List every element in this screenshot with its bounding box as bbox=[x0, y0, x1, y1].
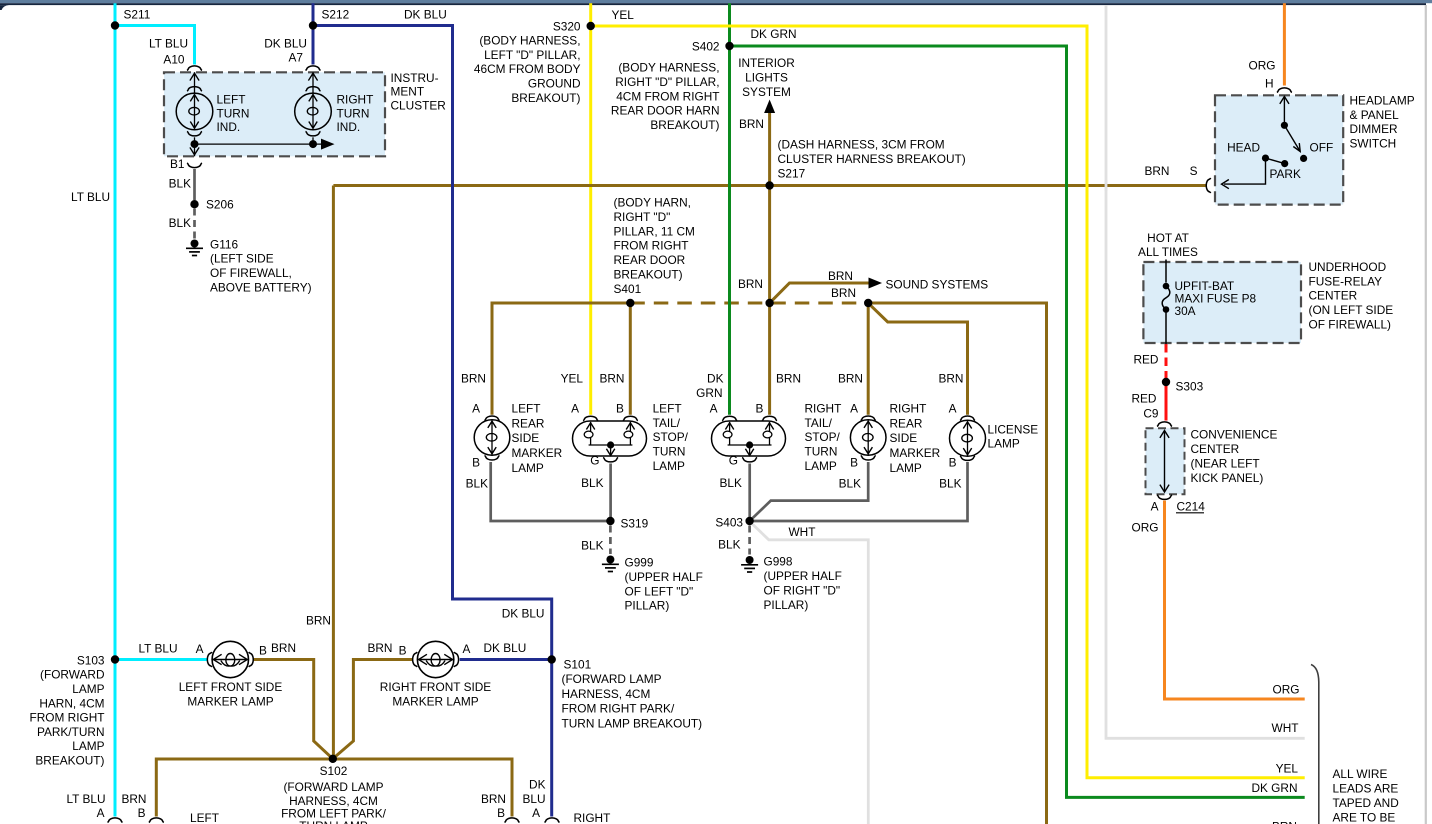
svg-text:4CM FROM RIGHT: 4CM FROM RIGHT bbox=[616, 89, 719, 103]
svg-text:SIDE: SIDE bbox=[512, 431, 540, 445]
svg-text:BRN: BRN bbox=[367, 641, 392, 655]
wire BLK right tail G to S403 bbox=[748, 464, 751, 522]
svg-text:IND.: IND. bbox=[217, 120, 241, 134]
connector C214 bbox=[1157, 495, 1172, 499]
wire BRN main vertical to S102 bbox=[332, 186, 335, 759]
svg-text:OF RIGHT "D": OF RIGHT "D" bbox=[764, 584, 841, 598]
svg-text:BRN: BRN bbox=[739, 117, 764, 131]
svg-text:BLK: BLK bbox=[720, 476, 742, 490]
svg-text:BRN: BRN bbox=[828, 269, 853, 283]
wire BRN splice drop to right tail B bbox=[768, 303, 771, 415]
svg-text:BLU: BLU bbox=[522, 792, 545, 806]
svg-text:LEFT "D" PILLAR,: LEFT "D" PILLAR, bbox=[484, 48, 580, 62]
wire LT BLU S103 to lamp bbox=[115, 658, 207, 661]
svg-text:INTERIOR: INTERIOR bbox=[738, 56, 795, 70]
svg-text:ORG: ORG bbox=[1273, 682, 1300, 696]
svg-text:BREAKOUT): BREAKOUT) bbox=[650, 118, 719, 132]
svg-text:LAMP: LAMP bbox=[653, 459, 685, 473]
instrument cluster box bbox=[164, 72, 385, 156]
svg-text:A: A bbox=[472, 401, 480, 415]
svg-text:ORG: ORG bbox=[1132, 520, 1159, 534]
svg-text:(BODY HARNESS,: (BODY HARNESS, bbox=[479, 33, 580, 47]
wire BRN splice right and down page bbox=[868, 303, 1046, 824]
wire BRN S217 down to splice bbox=[768, 186, 771, 304]
turn indicator lamp at x=313 bbox=[312, 72, 314, 93]
svg-text:BRN: BRN bbox=[938, 372, 963, 386]
arrow to interior lights system bbox=[764, 100, 775, 114]
svg-text:FROM RIGHT PARK/: FROM RIGHT PARK/ bbox=[562, 702, 675, 716]
svg-text:(NEAR LEFT: (NEAR LEFT bbox=[1191, 457, 1260, 471]
svg-text:RIGHT: RIGHT bbox=[805, 401, 842, 415]
svg-text:INSTRU-: INSTRU- bbox=[391, 71, 439, 85]
svg-text:(FORWARD LAMP: (FORWARD LAMP bbox=[562, 672, 662, 686]
crossing overlays (wires passing over BRN main) bbox=[451, 180, 454, 191]
wire DK GRN S402 branch right and down bbox=[730, 46, 1305, 797]
svg-text:RIGHT: RIGHT bbox=[337, 93, 374, 107]
svg-text:YEL: YEL bbox=[561, 372, 584, 386]
svg-text:MENT: MENT bbox=[391, 85, 425, 99]
svg-text:BRN: BRN bbox=[461, 372, 486, 386]
wire BLK dashed S403 to G998 bbox=[748, 526, 751, 555]
svg-text:BRN: BRN bbox=[121, 792, 146, 806]
wire BRN splice drop to right marker A bbox=[867, 303, 870, 415]
svg-text:YEL: YEL bbox=[1276, 761, 1299, 775]
svg-text:B: B bbox=[138, 806, 146, 820]
svg-text:TAIL/: TAIL/ bbox=[653, 416, 681, 430]
svg-text:46CM FROM BODY: 46CM FROM BODY bbox=[474, 62, 581, 76]
svg-text:PILLAR, 11 CM: PILLAR, 11 CM bbox=[614, 224, 695, 238]
svg-text:BLK: BLK bbox=[839, 476, 861, 490]
wire LT BLU vertical S211->S103->bottom bbox=[114, 3, 117, 816]
svg-text:BRN: BRN bbox=[1144, 164, 1169, 178]
svg-text:RIGHT FRONT SIDE: RIGHT FRONT SIDE bbox=[380, 680, 492, 694]
wire BRN S217 up to interior lights bbox=[768, 113, 771, 186]
svg-text:(ON LEFT SIDE: (ON LEFT SIDE bbox=[1309, 303, 1394, 317]
cluster exit to B1 bbox=[194, 144, 196, 156]
wire BRN sound systems branch bbox=[772, 283, 869, 300]
svg-text:B: B bbox=[949, 455, 957, 469]
svg-text:DK GRN: DK GRN bbox=[751, 27, 797, 41]
svg-text:ALL WIRE: ALL WIRE bbox=[1333, 767, 1388, 781]
fuse UPFIT-BAT MAXI FUSE P8 30A bbox=[1165, 260, 1167, 283]
svg-text:A7: A7 bbox=[289, 51, 304, 65]
svg-text:(FORWARD: (FORWARD bbox=[40, 668, 104, 682]
connector B1 bbox=[187, 163, 202, 167]
svg-text:LEFT: LEFT bbox=[653, 401, 682, 415]
svg-text:RED: RED bbox=[1133, 352, 1158, 366]
splice S320 bbox=[587, 22, 595, 30]
splice S101 bbox=[548, 655, 556, 663]
svg-text:OF FIREWALL,: OF FIREWALL, bbox=[210, 266, 292, 280]
svg-text:LIGHTS: LIGHTS bbox=[745, 71, 788, 85]
svg-text:BRN: BRN bbox=[738, 277, 763, 291]
svg-text:S303: S303 bbox=[1176, 379, 1204, 393]
svg-text:DK GRN: DK GRN bbox=[1251, 781, 1297, 795]
svg-text:BLK: BLK bbox=[169, 216, 191, 230]
svg-text:BRN: BRN bbox=[271, 641, 296, 655]
svg-text:TURN LAMP: TURN LAMP bbox=[299, 819, 368, 824]
svg-text:MARKER: MARKER bbox=[512, 446, 563, 460]
svg-text:CENTER: CENTER bbox=[1191, 442, 1240, 456]
svg-text:B: B bbox=[497, 806, 505, 820]
turn indicator lamp at x=194.5 bbox=[194, 72, 196, 93]
svg-text:TURN: TURN bbox=[217, 106, 250, 120]
splice S103 bbox=[111, 655, 119, 663]
svg-text:S403: S403 bbox=[715, 516, 743, 530]
svg-text:ARE TO BE: ARE TO BE bbox=[1333, 810, 1396, 824]
svg-text:S319: S319 bbox=[621, 517, 649, 531]
svg-text:STOP/: STOP/ bbox=[805, 430, 841, 444]
svg-text:LT BLU: LT BLU bbox=[66, 792, 105, 806]
svg-text:SIDE: SIDE bbox=[890, 431, 918, 445]
svg-text:BLK: BLK bbox=[718, 538, 740, 552]
grouping bracket bbox=[1311, 665, 1319, 824]
splice S401 bbox=[626, 299, 634, 307]
splice on dashed line (right) bbox=[864, 299, 872, 307]
svg-text:LT BLU: LT BLU bbox=[138, 641, 177, 655]
svg-text:A: A bbox=[463, 642, 471, 656]
wire RED S303 to C9 bbox=[1165, 378, 1168, 421]
wire DK BLU lamp to S101 bbox=[460, 658, 552, 661]
svg-text:TAPED AND: TAPED AND bbox=[1333, 796, 1399, 810]
wire WHT right-side vertical bbox=[1106, 5, 1305, 738]
wire RED fused dashed segment bbox=[1165, 344, 1168, 378]
svg-text:(BODY HARN,: (BODY HARN, bbox=[614, 196, 691, 210]
svg-text:A: A bbox=[196, 642, 204, 656]
wire WHT from S403 down right side of body bbox=[752, 524, 869, 824]
svg-text:A: A bbox=[850, 401, 858, 415]
svg-text:CONVENIENCE: CONVENIENCE bbox=[1191, 428, 1278, 442]
svg-text:DK BLU: DK BLU bbox=[484, 641, 527, 655]
splice on dashed line (center) bbox=[765, 299, 773, 307]
ground G999 bbox=[606, 556, 614, 564]
svg-text:BLK: BLK bbox=[581, 476, 603, 490]
ground G998 bbox=[746, 556, 754, 564]
svg-text:B: B bbox=[259, 644, 267, 658]
wire BRN left marker lamp B to S102 bbox=[253, 660, 333, 759]
svg-text:STOP/: STOP/ bbox=[653, 430, 689, 444]
svg-text:BREAKOUT): BREAKOUT) bbox=[511, 91, 580, 105]
svg-text:HARNESS, 4CM: HARNESS, 4CM bbox=[562, 687, 651, 701]
wire BLK right marker B to S403 bbox=[750, 462, 868, 521]
bottom connector LT BLU A bbox=[108, 818, 123, 822]
wire ORG top to headlamp switch H bbox=[1283, 3, 1286, 85]
svg-text:G: G bbox=[590, 453, 599, 467]
svg-text:G116: G116 bbox=[210, 237, 239, 251]
wire ORG from C214 down and right bbox=[1165, 501, 1305, 700]
svg-text:HOT AT: HOT AT bbox=[1147, 231, 1189, 245]
svg-text:G: G bbox=[729, 453, 738, 467]
svg-text:BRN: BRN bbox=[776, 372, 801, 386]
svg-text:LEADS ARE: LEADS ARE bbox=[1333, 781, 1399, 795]
svg-text:LEFT: LEFT bbox=[512, 402, 541, 416]
svg-text:OF FIREWALL): OF FIREWALL) bbox=[1309, 318, 1392, 332]
wire DK BLU vertical S212 to A7 bbox=[312, 3, 315, 64]
wire BRN S401 drop to left tail B bbox=[629, 303, 632, 415]
svg-text:HEADLAMP: HEADLAMP bbox=[1350, 93, 1415, 107]
svg-text:BREAKOUT): BREAKOUT) bbox=[35, 754, 104, 768]
svg-text:ABOVE BATTERY): ABOVE BATTERY) bbox=[210, 281, 312, 295]
svg-text:DK BLU: DK BLU bbox=[264, 36, 307, 50]
svg-text:BRN: BRN bbox=[481, 792, 506, 806]
svg-text:BRN: BRN bbox=[838, 372, 863, 386]
svg-text:FUSE-RELAY: FUSE-RELAY bbox=[1309, 274, 1383, 288]
svg-text:SWITCH: SWITCH bbox=[1350, 137, 1397, 151]
right front side marker lamp bbox=[417, 641, 453, 677]
svg-text:G998: G998 bbox=[764, 555, 793, 569]
svg-text:S212: S212 bbox=[322, 8, 350, 22]
svg-text:BRN: BRN bbox=[1272, 820, 1297, 824]
underhood fuse-relay center box bbox=[1143, 262, 1301, 343]
svg-text:WHT: WHT bbox=[789, 525, 816, 539]
svg-text:S211: S211 bbox=[124, 8, 151, 22]
svg-text:YEL: YEL bbox=[612, 8, 635, 22]
svg-text:(FORWARD LAMP: (FORWARD LAMP bbox=[283, 780, 383, 794]
svg-text:GROUND: GROUND bbox=[528, 77, 581, 91]
svg-text:S320: S320 bbox=[553, 20, 581, 34]
bottom connector DK BLU A bbox=[545, 818, 560, 822]
wire BRN branch to license lamp A bbox=[871, 306, 968, 415]
svg-text:A10: A10 bbox=[163, 53, 184, 67]
svg-text:LAMP: LAMP bbox=[512, 461, 544, 475]
svg-text:A: A bbox=[710, 401, 718, 415]
left rear side marker lamp bbox=[485, 416, 500, 420]
svg-text:G999: G999 bbox=[625, 556, 654, 570]
svg-text:GRN: GRN bbox=[696, 386, 722, 400]
svg-text:DIMMER: DIMMER bbox=[1350, 122, 1398, 136]
svg-text:(UPPER HALF: (UPPER HALF bbox=[764, 569, 842, 583]
svg-text:B: B bbox=[472, 455, 480, 469]
svg-text:TURN LAMP BREAKOUT): TURN LAMP BREAKOUT) bbox=[562, 716, 703, 730]
svg-text:S: S bbox=[1190, 164, 1198, 178]
svg-text:FROM RIGHT: FROM RIGHT bbox=[614, 239, 689, 253]
wire BLK license B to S403 bbox=[750, 462, 968, 521]
page right edge divider bbox=[1425, 5, 1427, 824]
connector C9 bbox=[1157, 422, 1172, 426]
svg-text:H: H bbox=[1265, 77, 1274, 91]
wire BRN main horizontal to headlamp switch bbox=[333, 184, 1205, 187]
svg-text:CLUSTER HARNESS BREAKOUT): CLUSTER HARNESS BREAKOUT) bbox=[778, 152, 966, 166]
svg-text:TAIL/: TAIL/ bbox=[805, 416, 833, 430]
wire BLK left tail G to S319 bbox=[609, 464, 612, 522]
svg-text:& PANEL: & PANEL bbox=[1350, 108, 1400, 122]
splice S319 bbox=[606, 517, 614, 525]
svg-text:(LEFT SIDE: (LEFT SIDE bbox=[210, 252, 274, 266]
splice S403 bbox=[745, 517, 753, 525]
svg-text:MARKER LAMP: MARKER LAMP bbox=[187, 694, 273, 708]
svg-text:C9: C9 bbox=[1143, 406, 1159, 420]
left tail/stop/turn lamp bbox=[583, 416, 598, 420]
svg-text:(BODY HARNESS,: (BODY HARNESS, bbox=[618, 61, 719, 75]
svg-text:BREAKOUT): BREAKOUT) bbox=[614, 268, 683, 282]
svg-text:REAR DOOR HARN: REAR DOOR HARN bbox=[611, 104, 720, 118]
connector A10 bbox=[187, 66, 202, 70]
svg-text:BLK: BLK bbox=[581, 539, 603, 553]
svg-text:RIGHT "D": RIGHT "D" bbox=[614, 210, 671, 224]
wire BRN solid segment to S401 + drop to left marker bbox=[492, 303, 630, 415]
wire BLK dashed S206 to G116 bbox=[193, 209, 196, 239]
svg-text:RIGHT "D" PILLAR,: RIGHT "D" PILLAR, bbox=[615, 75, 719, 89]
svg-text:C214: C214 bbox=[1177, 499, 1206, 513]
wire LT BLU branch S211 to A10 bbox=[115, 26, 195, 65]
svg-text:ALL TIMES: ALL TIMES bbox=[1138, 245, 1198, 259]
svg-text:HARN, 4CM: HARN, 4CM bbox=[39, 696, 104, 710]
svg-text:SYSTEM: SYSTEM bbox=[742, 85, 791, 99]
svg-text:SOUND SYSTEMS: SOUND SYSTEMS bbox=[886, 277, 989, 291]
cluster junction dots and arrow line bbox=[191, 140, 199, 148]
svg-text:A: A bbox=[949, 401, 957, 415]
wire BLK B1 to S206 bbox=[193, 169, 196, 200]
svg-text:PILLAR): PILLAR) bbox=[625, 599, 670, 613]
headlamp & panel dimmer switch box bbox=[1215, 95, 1343, 204]
svg-text:LEFT: LEFT bbox=[190, 811, 219, 824]
wire BLK left marker B to S319 bbox=[491, 462, 611, 521]
svg-text:(DASH HARNESS, 3CM FROM: (DASH HARNESS, 3CM FROM bbox=[778, 138, 945, 152]
svg-text:S101: S101 bbox=[564, 658, 592, 672]
svg-text:A: A bbox=[571, 401, 579, 415]
svg-text:BRN: BRN bbox=[306, 614, 331, 628]
svg-text:BLK: BLK bbox=[939, 476, 961, 490]
svg-text:B: B bbox=[616, 401, 624, 415]
svg-text:PARK: PARK bbox=[1270, 167, 1301, 181]
svg-text:LT BLU: LT BLU bbox=[71, 190, 110, 204]
license lamp bbox=[960, 416, 975, 420]
svg-text:(UPPER HALF: (UPPER HALF bbox=[625, 570, 703, 584]
svg-text:REAR: REAR bbox=[890, 416, 923, 430]
svg-text:ORG: ORG bbox=[1249, 59, 1276, 73]
svg-text:KICK PANEL): KICK PANEL) bbox=[1191, 471, 1264, 485]
svg-text:FROM RIGHT: FROM RIGHT bbox=[29, 711, 104, 725]
svg-text:DK BLU: DK BLU bbox=[502, 607, 545, 621]
svg-text:CENTER: CENTER bbox=[1309, 289, 1358, 303]
svg-text:A: A bbox=[1151, 499, 1159, 513]
right rear side marker lamp bbox=[861, 416, 876, 420]
svg-text:LEFT FRONT SIDE: LEFT FRONT SIDE bbox=[179, 680, 283, 694]
svg-text:REAR DOOR: REAR DOOR bbox=[614, 253, 686, 267]
wire BRN dashed S401 to right splice bbox=[630, 302, 868, 305]
splice S217 bbox=[765, 181, 773, 189]
svg-text:30A: 30A bbox=[1175, 304, 1196, 318]
arrow to sound systems bbox=[869, 278, 883, 289]
bottom connector BRN B (left) bbox=[149, 818, 164, 822]
ground G116 bbox=[191, 240, 199, 248]
convenience center box bbox=[1146, 428, 1185, 494]
svg-text:LAMP: LAMP bbox=[72, 739, 104, 753]
wire BRN right marker lamp B to S102 bbox=[333, 660, 413, 759]
svg-text:S102: S102 bbox=[320, 764, 348, 778]
svg-text:MARKER LAMP: MARKER LAMP bbox=[392, 694, 478, 708]
svg-text:B: B bbox=[399, 644, 407, 658]
svg-text:DK: DK bbox=[707, 372, 724, 386]
bottom connector BRN B (right) bbox=[505, 818, 520, 822]
svg-text:CLUSTER: CLUSTER bbox=[391, 98, 446, 112]
svg-text:B: B bbox=[756, 401, 764, 415]
svg-text:S103: S103 bbox=[77, 654, 105, 668]
splice S303 bbox=[1162, 378, 1170, 386]
svg-text:LICENSE: LICENSE bbox=[988, 422, 1039, 436]
svg-text:B1: B1 bbox=[170, 157, 185, 171]
svg-text:LAMP: LAMP bbox=[805, 459, 837, 473]
svg-text:BLK: BLK bbox=[169, 177, 191, 191]
svg-text:REAR: REAR bbox=[512, 416, 545, 430]
svg-text:A: A bbox=[97, 806, 105, 820]
connector S bbox=[1206, 178, 1210, 193]
connector H bbox=[1277, 88, 1292, 92]
svg-text:TURN: TURN bbox=[805, 445, 838, 459]
wire BRN S102 horizontal + drops to bottom connectors bbox=[156, 759, 512, 817]
svg-text:DK BLU: DK BLU bbox=[404, 8, 447, 22]
svg-text:PILLAR): PILLAR) bbox=[764, 598, 809, 612]
splice S212 bbox=[309, 21, 317, 29]
headlamp switch mechanism bbox=[1283, 97, 1285, 126]
connector A7 bbox=[306, 66, 321, 70]
right tail/stop/turn lamp bbox=[722, 416, 737, 420]
splice S402 bbox=[725, 42, 733, 50]
convenience center pass-through bbox=[1164, 431, 1166, 492]
svg-text:UNDERHOOD: UNDERHOOD bbox=[1309, 260, 1387, 274]
splice S211 bbox=[111, 21, 119, 29]
svg-text:IND.: IND. bbox=[337, 120, 361, 134]
left front side marker lamp bbox=[212, 641, 248, 677]
svg-text:S402: S402 bbox=[692, 40, 720, 54]
wire DK GRN vertical to right tail lamp A bbox=[728, 3, 731, 415]
svg-text:S206: S206 bbox=[206, 197, 234, 211]
wire BLK dashed S319 to G999 bbox=[609, 526, 612, 555]
wire YEL vertical to left tail lamp A bbox=[589, 3, 592, 415]
svg-text:MARKER: MARKER bbox=[890, 446, 941, 460]
svg-text:RIGHT: RIGHT bbox=[890, 402, 927, 416]
top chrome bar bbox=[0, 0, 1432, 3]
svg-text:RIGHT: RIGHT bbox=[574, 811, 611, 824]
svg-text:OF LEFT "D": OF LEFT "D" bbox=[625, 584, 694, 598]
svg-text:LAMP: LAMP bbox=[988, 437, 1020, 451]
svg-text:A: A bbox=[532, 806, 540, 820]
svg-text:OFF: OFF bbox=[1310, 141, 1334, 155]
wire DK BLU S212 branch down to S101 and bottom bbox=[313, 26, 552, 817]
svg-text:HEAD: HEAD bbox=[1227, 141, 1260, 155]
svg-text:LT BLU: LT BLU bbox=[149, 36, 188, 50]
splice S206 bbox=[190, 200, 198, 208]
svg-text:B: B bbox=[850, 455, 858, 469]
svg-text:TURN: TURN bbox=[653, 445, 686, 459]
svg-text:DK: DK bbox=[529, 777, 546, 791]
svg-text:LEFT: LEFT bbox=[217, 93, 246, 107]
splice S102 bbox=[329, 755, 337, 763]
svg-text:BRN: BRN bbox=[831, 286, 856, 300]
svg-text:LAMP: LAMP bbox=[72, 682, 104, 696]
svg-text:BLK: BLK bbox=[466, 476, 488, 490]
svg-text:S217: S217 bbox=[778, 166, 806, 180]
svg-text:TURN: TURN bbox=[337, 106, 370, 120]
svg-text:WHT: WHT bbox=[1272, 721, 1299, 735]
svg-text:S401: S401 bbox=[614, 282, 642, 296]
svg-text:BRN: BRN bbox=[599, 372, 624, 386]
svg-text:LAMP: LAMP bbox=[890, 461, 922, 475]
wire YEL S320 branch right and down bbox=[591, 26, 1305, 778]
svg-text:PARK/TURN: PARK/TURN bbox=[37, 725, 105, 739]
svg-text:RED: RED bbox=[1131, 391, 1156, 405]
